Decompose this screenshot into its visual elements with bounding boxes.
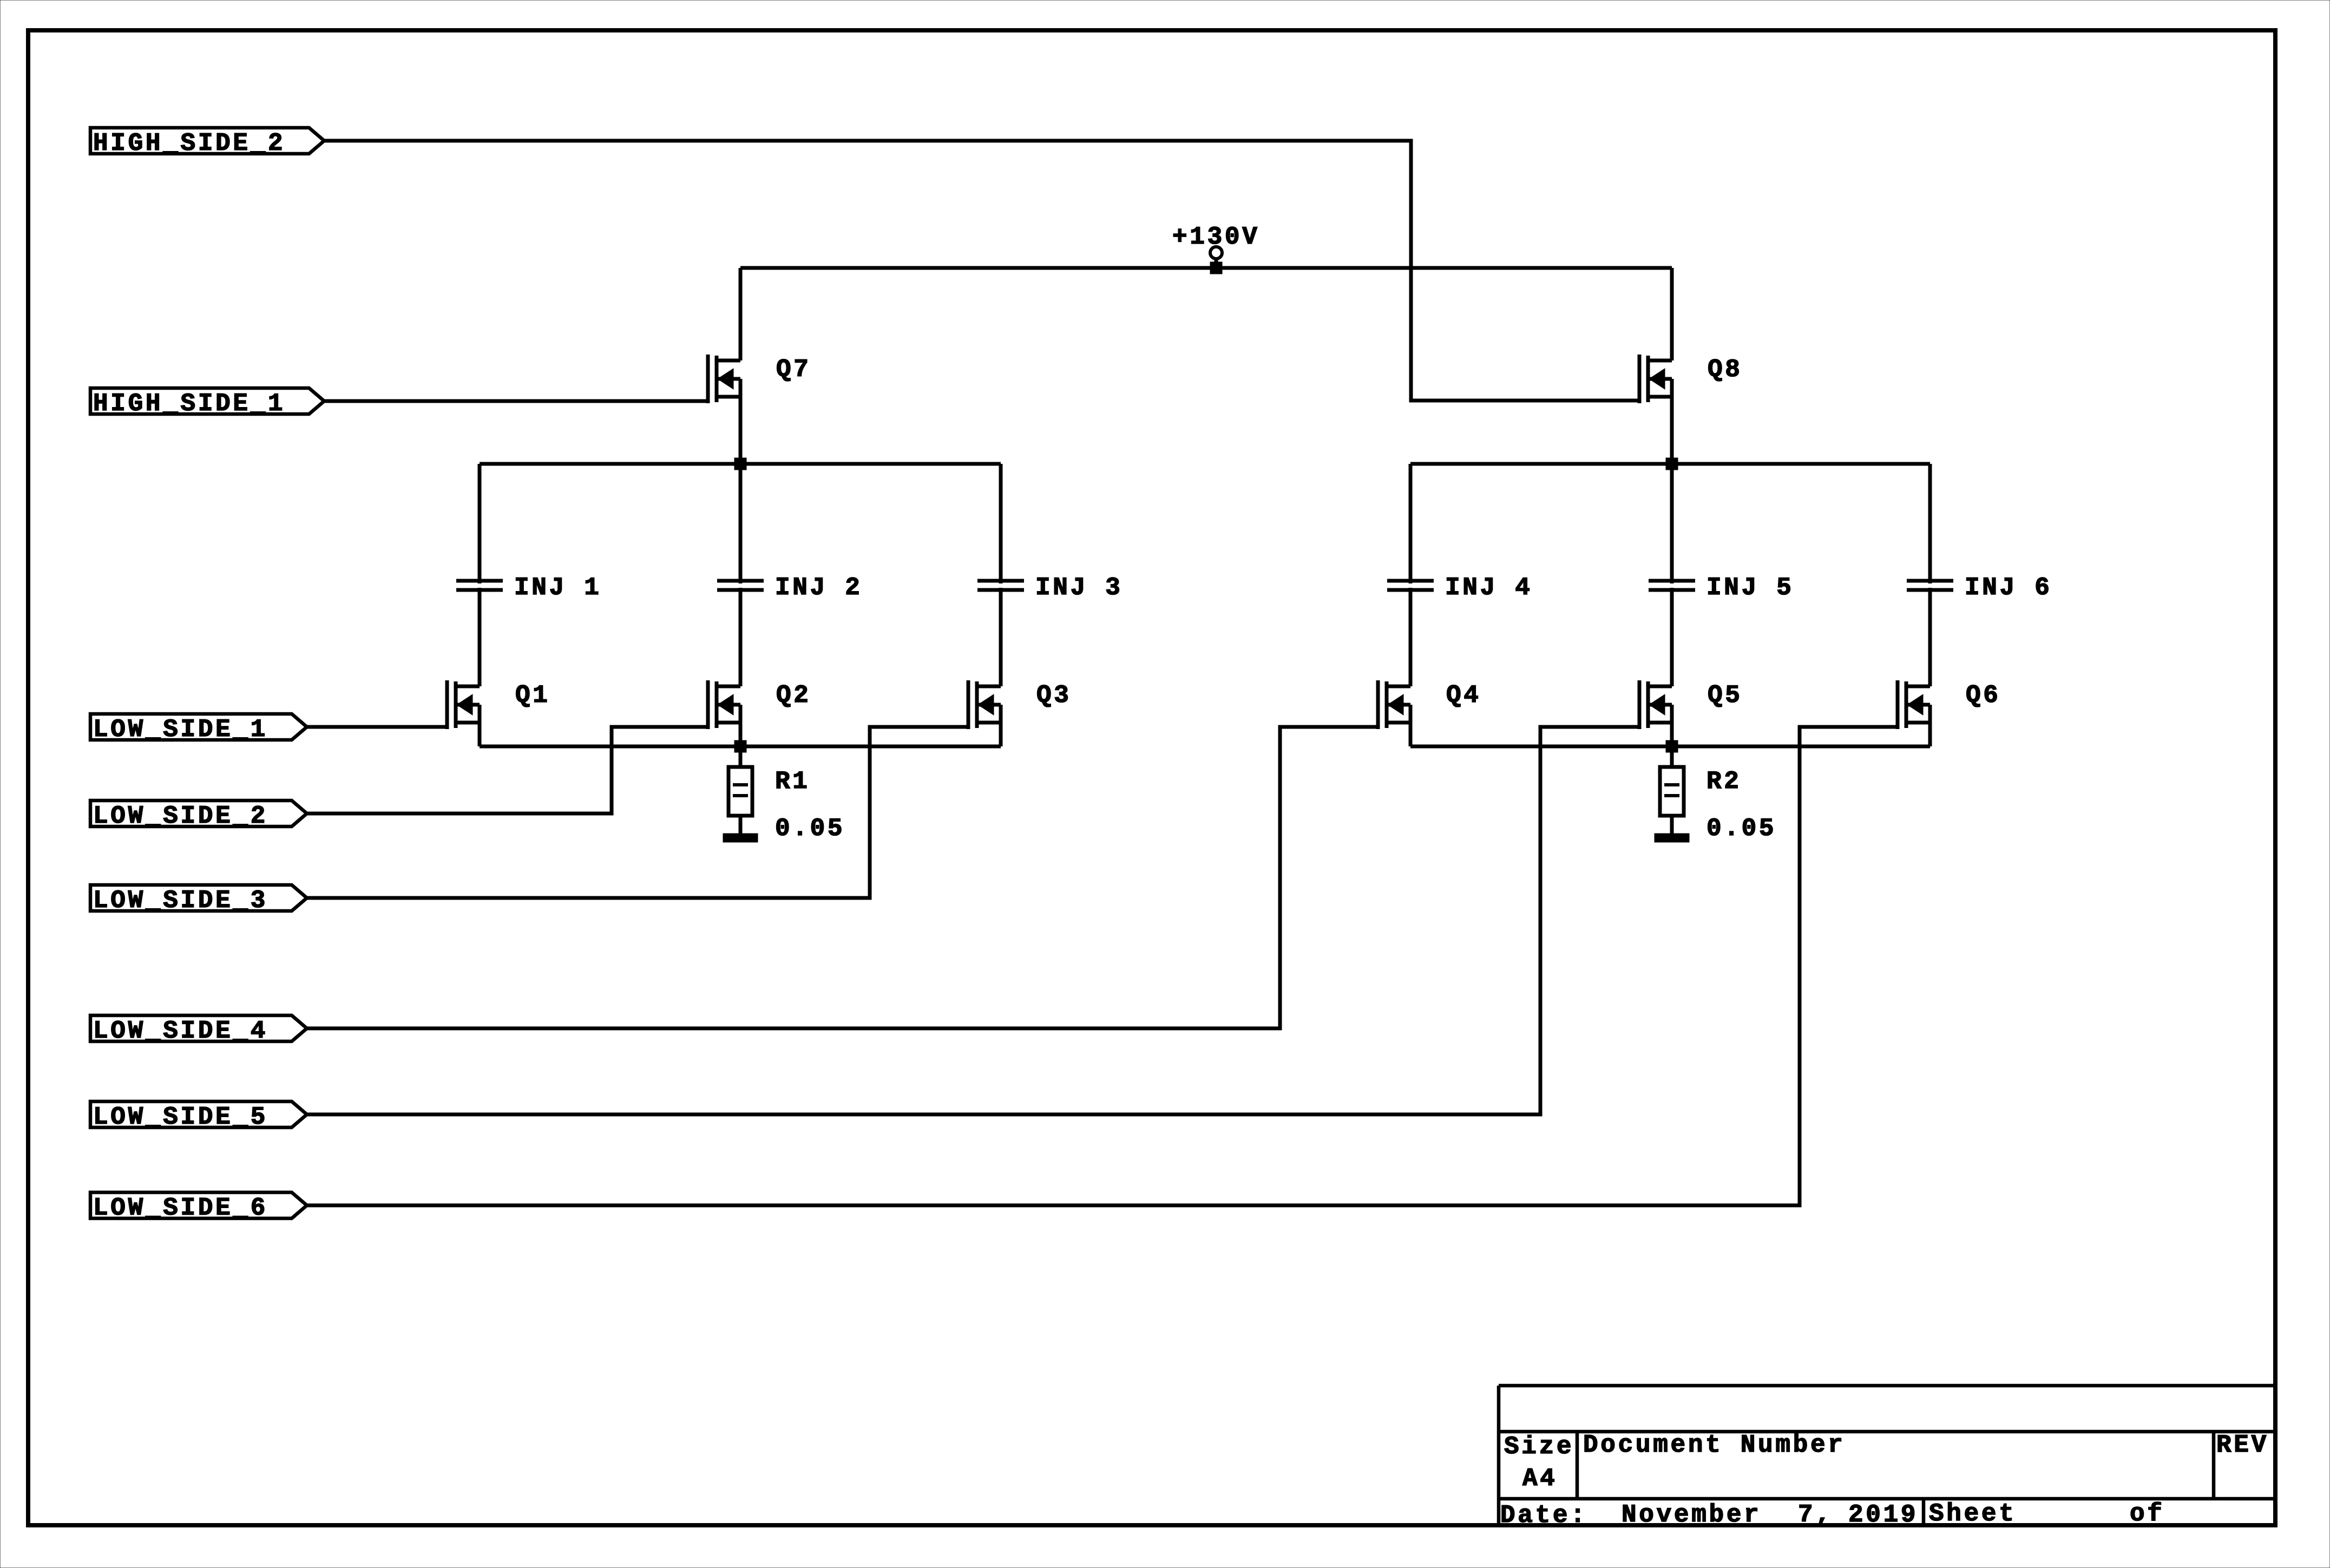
wire injector branch top lead x=886 xyxy=(478,464,482,583)
svg-text:0.05: 0.05 xyxy=(775,815,845,843)
capacitor-style injector INJ 3 xyxy=(977,574,1123,602)
svg-text:+130V: +130V xyxy=(1172,223,1260,251)
svg-text:Q5: Q5 xyxy=(1708,681,1743,710)
wire low-side source drop x=3089 xyxy=(1670,723,1674,746)
wire low-side source drop x=3566 xyxy=(1928,723,1932,746)
svg-text:November: November xyxy=(1622,1501,1761,1529)
wire injector branch bottom lead x=3089 xyxy=(1670,588,1674,686)
resistor R1 xyxy=(728,767,845,843)
svg-text:Q7: Q7 xyxy=(776,356,811,384)
junction left source rail / R1 xyxy=(734,740,746,752)
junction Q8 source / INJ 5 branch xyxy=(1666,458,1678,470)
wire injector branch top lead x=1849 xyxy=(999,464,1003,583)
wire Q7 drain to +130V rail xyxy=(739,268,743,360)
wire LOW_SIDE_4 to Q4 gate xyxy=(307,727,1378,1028)
capacitor-style injector INJ 1 xyxy=(456,574,602,602)
wire injector branch bottom lead x=2606 xyxy=(1409,588,1413,686)
svg-text:Size: Size xyxy=(1504,1433,1574,1461)
node LOW_SIDE_1 input port flag xyxy=(90,714,307,744)
wire Q8 source to right injector rail xyxy=(1670,397,1674,464)
wire +130V rail xyxy=(740,266,1672,270)
svg-text:Q4: Q4 xyxy=(1446,681,1481,710)
ground below R1 xyxy=(723,834,758,842)
svg-text:LOW_SIDE_6: LOW_SIDE_6 xyxy=(93,1194,268,1222)
wire low-side source drop x=2606 xyxy=(1409,723,1413,746)
svg-text:REV: REV xyxy=(2216,1431,2269,1459)
svg-text:2019: 2019 xyxy=(1848,1501,1918,1529)
wire low-side source drop x=1849 xyxy=(999,723,1003,746)
junction +130V rail tap xyxy=(1210,262,1222,274)
wire right injector top rail xyxy=(1410,462,1930,466)
svg-text:HIGH_SIDE_1: HIGH_SIDE_1 xyxy=(93,390,285,418)
svg-text:INJ 3: INJ 3 xyxy=(1035,574,1123,602)
wire injector branch bottom lead x=886 xyxy=(478,588,482,686)
wire R2 bottom lead xyxy=(1670,816,1674,835)
svg-text:Q8: Q8 xyxy=(1708,356,1743,384)
wire injector branch bottom lead x=1849 xyxy=(999,588,1003,686)
wire low-side source drop x=1368 xyxy=(739,723,743,746)
transistor Q7 xyxy=(708,355,811,403)
svg-text:R1: R1 xyxy=(775,767,810,796)
capacitor-style injector INJ 4 xyxy=(1387,574,1533,602)
wire LOW_SIDE_3 to Q3 gate xyxy=(307,727,968,898)
svg-text:HIGH_SIDE_2: HIGH_SIDE_2 xyxy=(93,129,285,158)
svg-text:R2: R2 xyxy=(1707,767,1742,796)
transistor Q2 xyxy=(708,680,811,729)
svg-text:0.05: 0.05 xyxy=(1707,815,1776,843)
node HIGH_SIDE_1 input port flag xyxy=(90,388,324,418)
svg-text:LOW_SIDE_2: LOW_SIDE_2 xyxy=(93,802,268,830)
svg-text:INJ 4: INJ 4 xyxy=(1445,574,1533,602)
wire LOW_SIDE_2 to Q2 gate xyxy=(307,727,708,813)
wire injector branch bottom lead x=1368 xyxy=(739,588,743,686)
svg-text:Document Number: Document Number xyxy=(1583,1431,1846,1459)
node LOW_SIDE_6 input port flag xyxy=(90,1192,307,1222)
svg-text:INJ 1: INJ 1 xyxy=(514,574,602,602)
transistor Q3 xyxy=(968,680,1072,729)
svg-text:INJ 5: INJ 5 xyxy=(1707,574,1794,602)
wire right source rail xyxy=(1410,745,1930,749)
svg-text:Sheet: Sheet xyxy=(1929,1500,2017,1528)
wire HIGH_SIDE_1 to Q7 gate xyxy=(324,399,708,403)
wire injector branch top lead x=1368 xyxy=(739,464,743,583)
wire injector branch top lead x=3089 xyxy=(1670,464,1674,583)
svg-text:INJ 6: INJ 6 xyxy=(1965,574,2052,602)
wire left injector top rail xyxy=(480,462,1001,466)
svg-text:Q1: Q1 xyxy=(515,681,550,710)
junction Q7 source / INJ 2 branch xyxy=(734,458,746,470)
wire R2 top lead xyxy=(1670,746,1674,767)
junction right source rail / R2 xyxy=(1666,740,1678,752)
node LOW_SIDE_3 input port flag xyxy=(90,885,307,915)
svg-text:LOW_SIDE_3: LOW_SIDE_3 xyxy=(93,887,268,915)
svg-text:Q3: Q3 xyxy=(1036,681,1072,710)
wire R1 top lead xyxy=(739,746,743,767)
svg-text:A4: A4 xyxy=(1522,1465,1558,1493)
wire Q8 drain to +130V rail xyxy=(1670,268,1674,360)
node LOW_SIDE_2 input port flag xyxy=(90,801,307,830)
transistor Q6 xyxy=(1898,680,2001,729)
wire low-side source drop x=886 xyxy=(478,723,482,746)
wire HIGH_SIDE_2 to Q8 gate xyxy=(324,141,1639,401)
title block xyxy=(1499,1386,2275,1530)
svg-text:LOW_SIDE_1: LOW_SIDE_1 xyxy=(93,716,268,744)
svg-text:Date:: Date: xyxy=(1500,1501,1588,1530)
svg-text:Q2: Q2 xyxy=(776,681,811,710)
wire injector branch top lead x=3566 xyxy=(1928,464,1932,583)
wire left source rail xyxy=(480,745,1001,749)
svg-text:of: of xyxy=(2130,1500,2165,1528)
transistor Q4 xyxy=(1378,680,1481,729)
node HIGH_SIDE_2 input port flag xyxy=(90,128,324,158)
capacitor-style injector INJ 6 xyxy=(1907,574,2052,602)
transistor Q5 xyxy=(1639,680,1743,729)
node LOW_SIDE_5 input port flag xyxy=(90,1101,307,1131)
wire LOW_SIDE_1 to Q1 gate xyxy=(307,725,447,729)
wire R1 bottom lead xyxy=(739,816,743,835)
svg-text:INJ 2: INJ 2 xyxy=(775,574,863,602)
svg-text:LOW_SIDE_5: LOW_SIDE_5 xyxy=(93,1103,268,1131)
svg-text:7,: 7, xyxy=(1798,1501,1833,1529)
svg-text:LOW_SIDE_4: LOW_SIDE_4 xyxy=(93,1017,268,1045)
wire Q7 source to left injector rail xyxy=(739,397,743,464)
ground below R2 xyxy=(1655,834,1689,842)
capacitor-style injector INJ 5 xyxy=(1649,574,1794,602)
resistor R2 xyxy=(1660,767,1776,843)
node LOW_SIDE_4 input port flag xyxy=(90,1015,307,1045)
wire injector branch top lead x=2606 xyxy=(1409,464,1413,583)
transistor Q1 xyxy=(447,680,550,729)
power +130V symbol xyxy=(1172,223,1260,268)
wire LOW_SIDE_6 to Q6 gate xyxy=(307,727,1898,1205)
wire injector branch bottom lead x=3566 xyxy=(1928,588,1932,686)
svg-text:Q6: Q6 xyxy=(1966,681,2001,710)
wire LOW_SIDE_5 to Q5 gate xyxy=(307,727,1639,1114)
capacitor-style injector INJ 2 xyxy=(717,574,863,602)
transistor Q8 xyxy=(1639,355,1743,403)
